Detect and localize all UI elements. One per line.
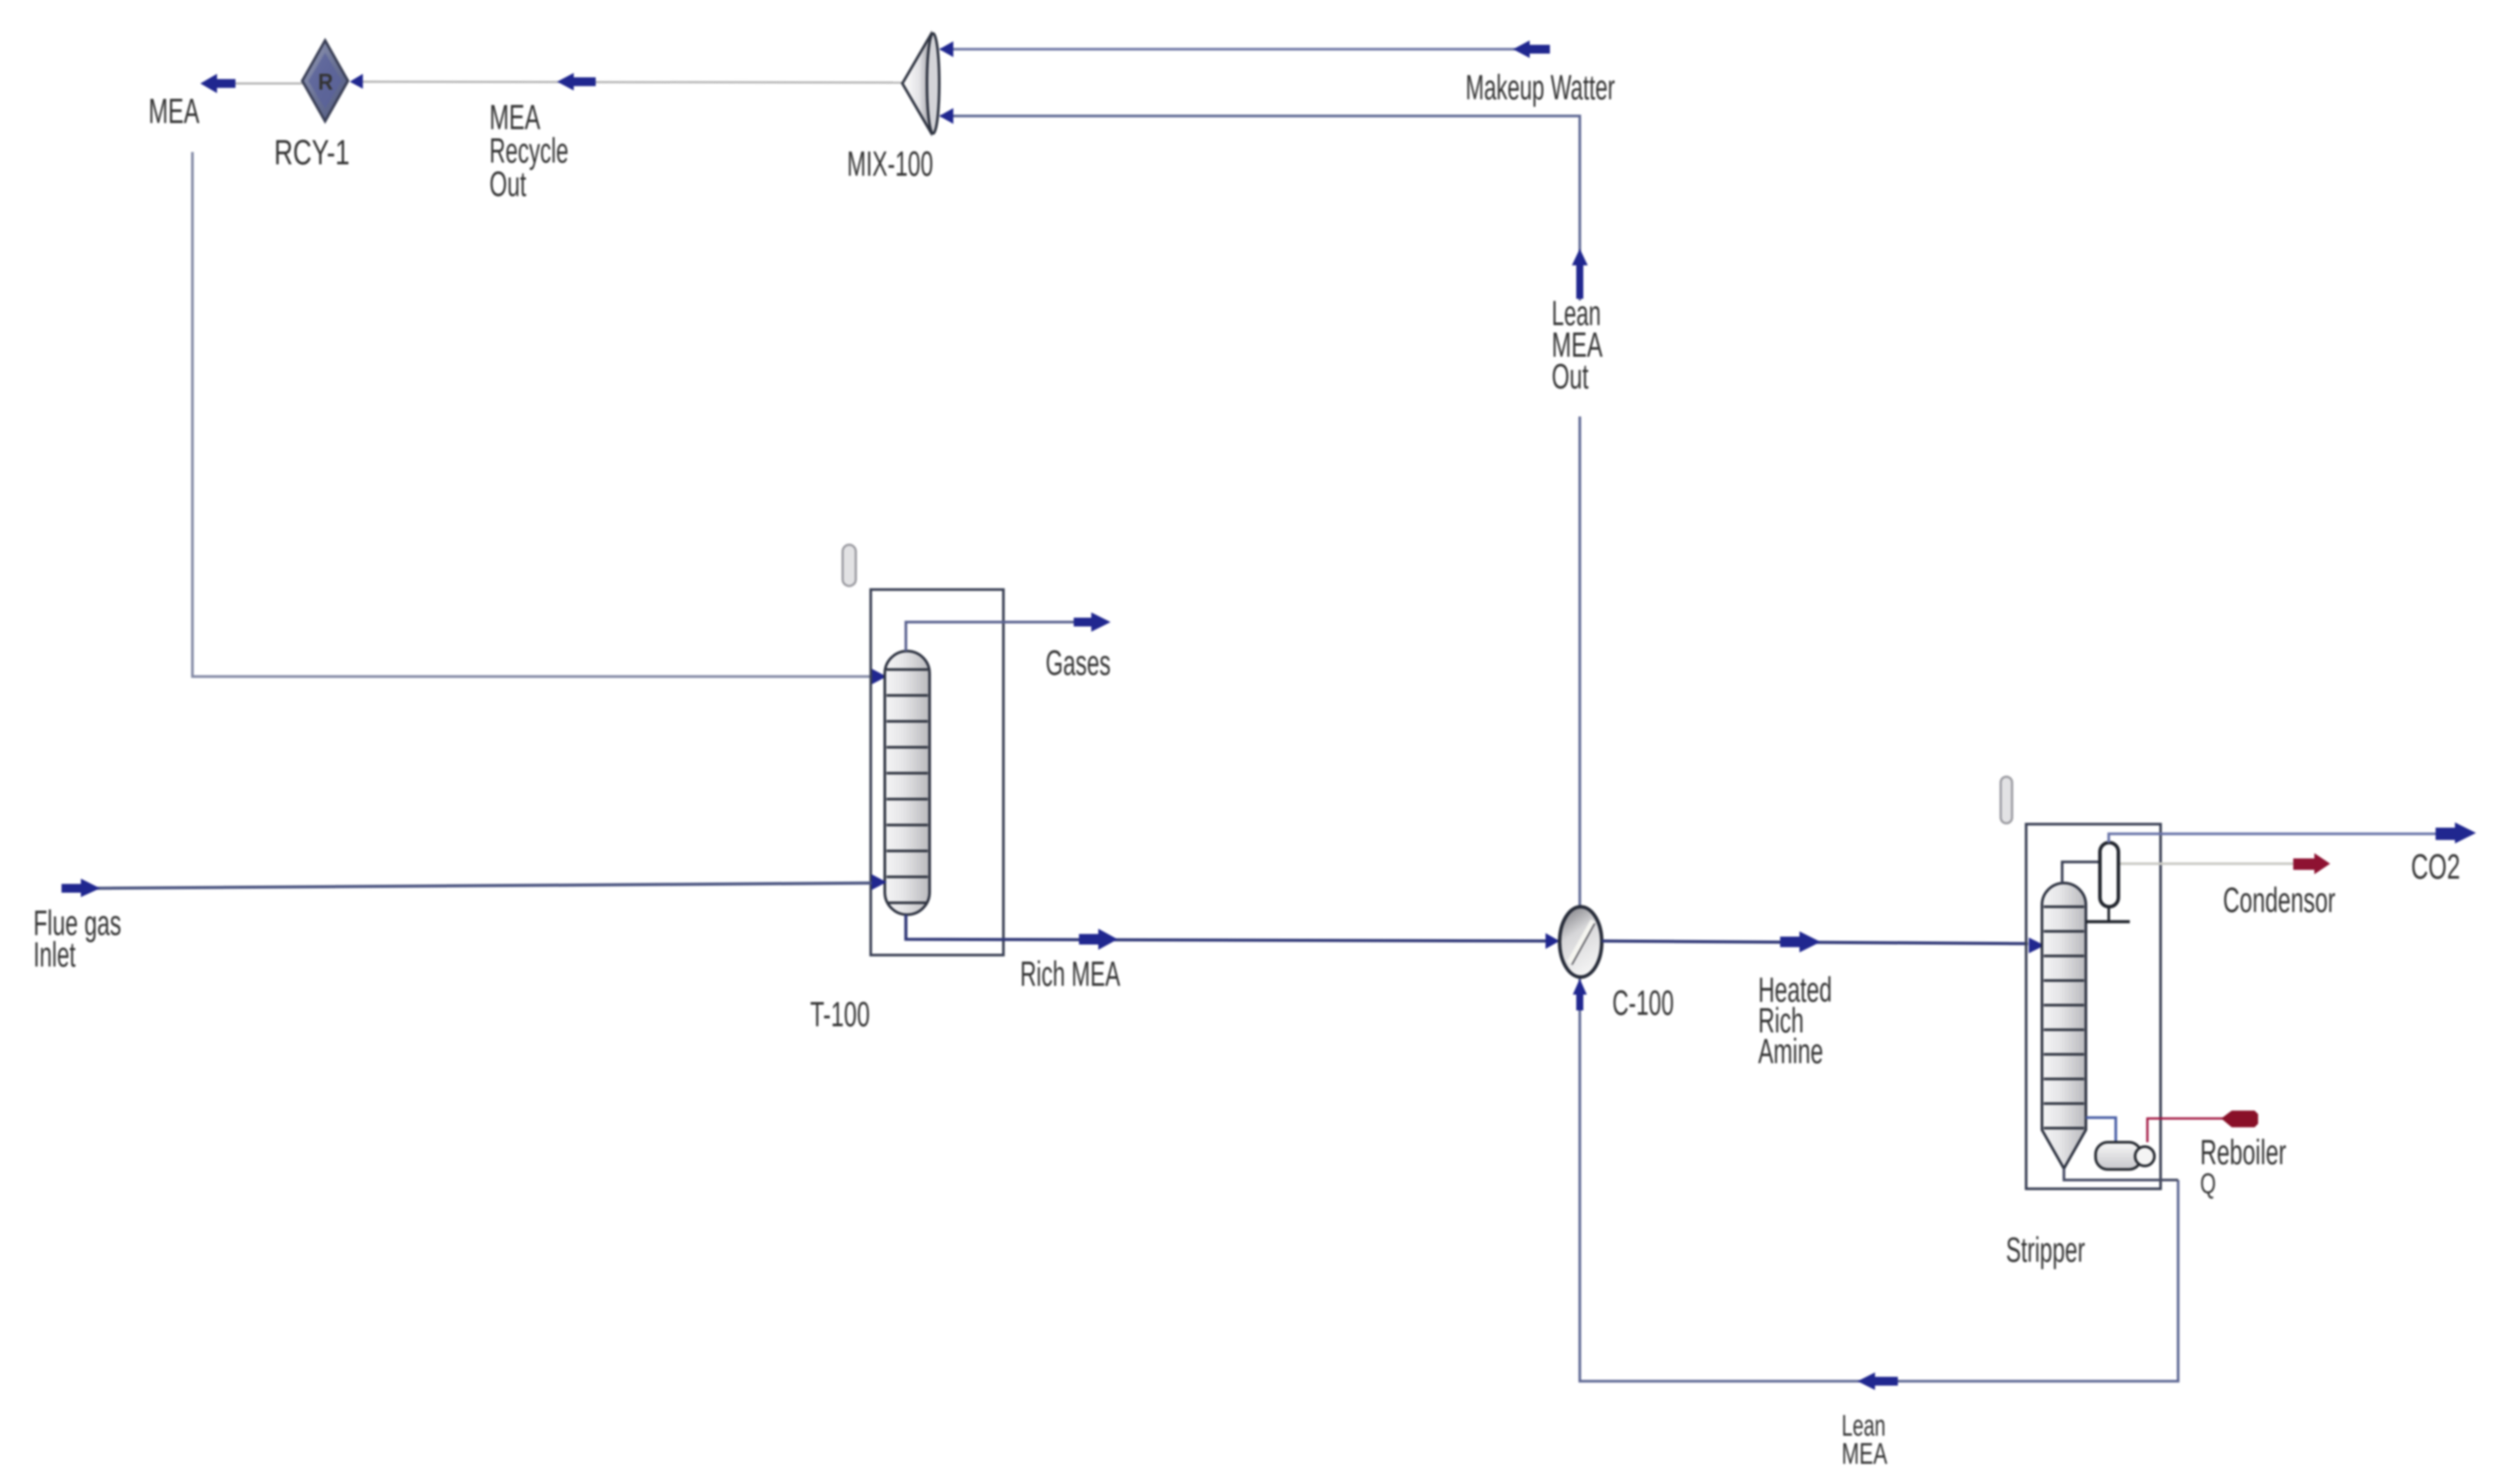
wire Flue gas Inlet to T-100 [95,883,872,888]
wire Rich MEA from T-100 bottom to C-100 [906,915,1546,941]
wire MEA stream down and right to T-100 top inlet [192,152,870,677]
Lean MEA Out label [1545,294,1625,416]
svg-text:Amine: Amine [1758,1032,1823,1071]
Rich MEA stream arrow [1079,929,1118,950]
Stripper label [2006,1231,2085,1270]
wire reboiler energy line [2147,1118,2226,1142]
RCY-1 label [274,134,350,172]
svg-text:MEA: MEA [148,92,199,131]
flow arrow up into C-100 bottom [1573,979,1587,1010]
heat exchanger C-100 [1560,907,1602,977]
wire condenser reflux return [2086,907,2130,922]
Makeup Watter stream arrow [1513,40,1550,58]
wire MEA stream line from arrow to RCY-1 [234,83,303,85]
absorber T-100 tray column [885,651,930,915]
svg-text:MEA: MEA [1842,1437,1887,1471]
Rich MEA label [1020,955,1120,994]
arrowhead into MIX-100 top [939,41,953,57]
svg-text:Out: Out [489,165,526,204]
arrowhead into T-100 top inlet [872,669,887,684]
Gases label [1046,644,1111,683]
MIX-100 label [847,145,933,184]
Heated Rich Amine label [1758,971,1832,1071]
MEA label [148,92,199,131]
svg-text:Gases: Gases [1046,644,1111,683]
wire stripper overhead to condenser [2062,862,2100,883]
wire Gases from T-100 top [906,622,1075,651]
arrowhead into Stripper feed [2029,937,2045,953]
reboiler vessel [2096,1142,2154,1169]
svg-text:Makeup Watter: Makeup Watter [1466,69,1615,107]
arrowhead into T-100 bottom inlet [872,874,887,890]
Condensor energy arrow [2293,853,2330,874]
Flue gas Inlet stream arrow [62,879,100,897]
absorber T-100 boundary [871,590,1003,955]
arrowhead into MIX-100 bottom [939,108,953,124]
svg-text:Rich MEA: Rich MEA [1020,955,1120,994]
svg-text:R: R [318,69,333,95]
svg-text:Reboiler: Reboiler [2200,1133,2286,1172]
Makeup Watter label [1466,69,1615,107]
MEA stream arrow [200,74,235,93]
wire stripper bottoms to lean MEA run [2064,1169,2178,1180]
T-100 label [810,995,870,1034]
Flue gas Inlet label [33,904,121,974]
svg-text:MIX-100: MIX-100 [847,145,933,184]
wire lean MEA riser: MIX-100 bottom inlet, down through C-100, bottom run, up to stripper [940,116,2178,1381]
Heated Rich Amine stream arrow [1780,931,1821,952]
Reboiler label [2200,1133,2286,1199]
status icon above T-100 [843,545,856,586]
Gases stream arrow [1074,612,1111,632]
wire RCY-1 to MIX-100 [363,82,905,83]
svg-text:T-100: T-100 [810,995,870,1034]
CO2 label [2411,848,2460,887]
svg-text:Inlet: Inlet [33,936,76,974]
Reboiler energy arrow [2221,1111,2258,1127]
condenser vessel [2100,843,2118,907]
status icon above stripper [2001,777,2012,823]
svg-text:Stripper: Stripper [2006,1231,2085,1270]
recycle RCY-1 [302,40,348,121]
svg-text:C-100: C-100 [1612,984,1674,1023]
svg-text:Condensor: Condensor [2223,881,2335,920]
Lean MEA Out flow arrow (up) [1572,249,1588,299]
wire into reboiler from column [2086,1118,2116,1142]
arrowhead into RCY-1 right vertex [350,74,363,89]
MEA Recycle Out stream arrow [557,73,596,90]
svg-text:CO2: CO2 [2411,848,2460,887]
MEA Recycle Out label [489,98,568,204]
svg-text:Q: Q [2200,1168,2216,1199]
wire condenser energy line [2118,863,2295,865]
Lean MEA label (bottom) [1842,1409,1887,1471]
svg-text:Out: Out [1552,358,1589,396]
Lean MEA stream arrow (bottom, pointing left) [1857,1372,1898,1390]
svg-text:RCY-1: RCY-1 [274,134,350,172]
stripper tray column [2042,883,2086,1169]
stripper boundary [2026,824,2161,1189]
wire CO2 from condenser top [2109,834,2437,843]
CO2 stream arrow [2436,822,2476,843]
Condensor label [2223,881,2335,920]
C-100 label [1612,984,1674,1023]
wire Makeup Watter to MIX-100 top inlet [940,48,1546,51]
mixer MIX-100 [902,33,939,134]
arrowhead into C-100 left [1546,933,1560,949]
wire Heated Rich Amine from C-100 to Stripper [1602,941,2028,944]
